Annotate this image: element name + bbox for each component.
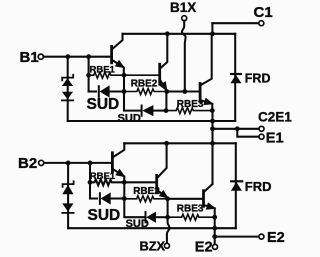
zener diode D3 bar (cathode, hooked)	[63, 181, 74, 187]
diode D4 body	[62, 203, 73, 211]
transistor Q3 emitter	[201, 100, 212, 110]
wire main vertical Q3e to unit2	[211, 111, 213, 184]
node dot riser2/RBE1	[88, 180, 93, 185]
diode SUD4 body	[146, 212, 156, 223]
diode D4 bar	[62, 212, 73, 214]
transistor Q3 bar	[199, 84, 202, 102]
svg-text:E2: E2	[195, 239, 213, 255]
node dot C2E1/E1 tee	[235, 126, 240, 131]
svg-text:SUD: SUD	[87, 96, 120, 113]
resistor RBE2 unit2	[124, 196, 167, 202]
resistor RBE3 unit1	[166, 108, 212, 114]
node dot bus2 / Q23 emitter vertical	[212, 226, 217, 231]
node dot Q22 emitter node	[165, 196, 170, 201]
wire SUD3 anode lead	[111, 197, 125, 199]
transistor Q3 collector	[201, 34, 212, 85]
transistor Q3 emitter arrow	[205, 99, 212, 104]
resistor RBE3 unit2	[168, 214, 215, 220]
wire riser rail-to-C1	[211, 23, 213, 34]
wire SUD1 row unit2	[90, 197, 97, 199]
wire B1 rail	[44, 56, 111, 58]
transistor Q2 collector	[161, 34, 168, 68]
node dot B2 rail / diode branch	[66, 161, 71, 166]
diode SUD2 bar	[141, 106, 143, 116]
transistor Q23 collector	[204, 143, 212, 191]
transistor Q22 collector	[158, 143, 167, 177]
svg-text:RBE2: RBE2	[131, 78, 158, 89]
svg-text:C1: C1	[254, 4, 273, 21]
wire emitter bus unit1	[68, 120, 236, 122]
transistor Q23 emitter arrow	[207, 204, 214, 209]
terminal circle E1	[259, 134, 264, 139]
transistor Q22 emitter	[158, 190, 168, 198]
diode SUD3 bar	[99, 193, 101, 204]
node dot rail2 / main vertical	[210, 141, 215, 146]
terminal circle B1X	[182, 16, 187, 21]
diode D2 body	[62, 92, 73, 99]
terminal circle B2	[39, 160, 44, 165]
node dot Q2 emitter node	[164, 89, 169, 94]
svg-text:FRD: FRD	[245, 179, 272, 194]
wire twin-diode branch vertical unit2	[67, 163, 69, 228]
terminal circle E2 bottom	[213, 244, 218, 249]
node dot RBE3/Q3 emitter	[210, 108, 215, 113]
transistor Q2 bar	[158, 64, 161, 84]
wire SUD1 row unit1	[89, 90, 96, 92]
wire N1 vertical (Q1e to SUD rows)	[123, 75, 125, 91]
diode D2 bar	[62, 99, 73, 101]
wire E2 stub	[215, 236, 259, 238]
wire C2E1 stub	[213, 128, 259, 130]
diode SUD1 bar	[98, 86, 100, 97]
resistor RBE1 unit1	[89, 72, 160, 78]
terminal circle E2 right	[259, 234, 264, 239]
wire C1 stub	[212, 22, 258, 24]
svg-text:B2: B2	[18, 155, 37, 172]
wire SUD4 anode lead	[156, 216, 168, 218]
transistor Q21 emitter arrow	[117, 170, 124, 176]
freewheel diode FRD2 bar	[231, 180, 242, 182]
transistor Q21 collector	[113, 143, 124, 157]
wire SUD1 anode lead	[110, 90, 124, 92]
node dot C2E1 stub left	[210, 126, 215, 131]
wire Q23 emitter vertical to E2	[214, 217, 216, 244]
wire FRD2 branch vertical	[235, 143, 237, 228]
zener diode D3 body	[62, 185, 73, 195]
wire N2 row to Q3 base	[167, 90, 200, 92]
diode SUD2 body	[142, 105, 153, 116]
wire SUD2 anode lead	[153, 110, 166, 112]
node dot rail/C1 riser	[210, 31, 215, 36]
transistor Q22 emitter arrow	[160, 191, 167, 197]
wire collector rail unit2	[124, 142, 236, 144]
wire collector rail unit1	[123, 33, 236, 35]
wire B1 riser branch	[88, 57, 90, 92]
svg-text:SUD: SUD	[118, 112, 141, 124]
node dot Q21 emitter / N1 row	[122, 180, 127, 185]
svg-text:E2: E2	[267, 230, 285, 246]
node dot B1 rail / diode branch	[65, 54, 70, 59]
wire Q2e node vertical	[165, 92, 167, 111]
transistor Q1 emitter	[113, 60, 124, 75]
transistor Q21 bar	[111, 153, 114, 172]
resistor RBE1 unit2	[90, 179, 156, 185]
zener diode D1 bar (cathode, hooked)	[62, 75, 73, 81]
terminal circle C2E1	[259, 126, 264, 131]
svg-text:BZX: BZX	[140, 238, 166, 253]
node dot Q1 emitter / N1 row	[122, 73, 127, 78]
transistor Q2 emitter	[161, 81, 167, 92]
wire Q22e node vertical	[167, 199, 169, 217]
transistor Q23 emitter	[204, 205, 214, 217]
wire B2 riser branch	[89, 163, 91, 199]
wire B2 rail	[44, 162, 112, 164]
diode SUD3 body	[101, 192, 111, 204]
terminal circle B1	[38, 54, 43, 59]
diode SUD4 bar	[145, 212, 147, 222]
node dot B1 rail / riser	[86, 54, 91, 59]
transistor Q1 bar	[110, 46, 113, 63]
wire B1X down with hop over collector rail	[182, 21, 186, 92]
transistor Q1 collector	[113, 34, 123, 49]
svg-text:FRD: FRD	[245, 71, 271, 85]
node dot bus / main vertical	[210, 119, 215, 124]
wire BZX riser with hop over bus	[167, 217, 170, 243]
transistor Q21 emitter	[113, 169, 124, 182]
wire FRD1 branch vertical	[234, 34, 236, 121]
freewheel diode FRD1 body	[230, 75, 241, 84]
node dot SUD1/RBE2 row at N1	[122, 89, 127, 94]
transistor Q22 bar	[155, 175, 158, 192]
node dot SUD3/RBE2 row at N1	[122, 196, 127, 201]
svg-text:C2E1: C2E1	[258, 110, 292, 125]
svg-text:RBE1: RBE1	[90, 171, 116, 182]
freewheel diode FRD1 bar	[231, 73, 241, 75]
svg-text:B1: B1	[20, 49, 39, 66]
node dot B2 rail / riser	[88, 161, 93, 166]
transistor Q23 bar	[202, 191, 205, 207]
zener diode D1 body	[62, 78, 73, 86]
node dot SUD2/RBE3 row	[164, 108, 169, 113]
node dot RBE3/Q23 emitter	[212, 215, 217, 220]
node dot rail/Q2 collector	[165, 31, 170, 36]
svg-text:E1: E1	[266, 131, 284, 147]
resistor RBE2 unit1	[124, 89, 167, 95]
wire twin-diode branch vertical unit1	[67, 57, 69, 121]
node dot B1X junction	[182, 89, 187, 94]
wire SUD4 row unit2	[124, 199, 144, 218]
node dot rail2 / Q22 riser	[164, 141, 169, 146]
wire emitter bus unit2	[68, 227, 236, 229]
wire N2 row to Q23 base	[168, 198, 203, 200]
node dot E2 stub	[212, 234, 217, 239]
terminal circle BZX	[164, 243, 169, 248]
node dot SUD4/RBE3 row	[165, 215, 170, 220]
svg-text:SUD: SUD	[88, 207, 121, 224]
wire SUD2 row unit1	[124, 92, 141, 111]
freewheel diode FRD2 body	[231, 182, 242, 191]
svg-text:RBE3: RBE3	[177, 203, 204, 214]
wire E1 stub	[237, 129, 259, 137]
node dot riser/RBE1	[86, 73, 91, 78]
diode SUD1 body	[100, 85, 110, 97]
wire N1 vertical unit2	[123, 182, 125, 198]
terminal circle C1	[259, 21, 264, 26]
transistor Q1 emitter arrow	[116, 61, 123, 67]
svg-text:B1X: B1X	[170, 0, 196, 15]
transistor Q2 emitter arrow	[161, 82, 167, 90]
